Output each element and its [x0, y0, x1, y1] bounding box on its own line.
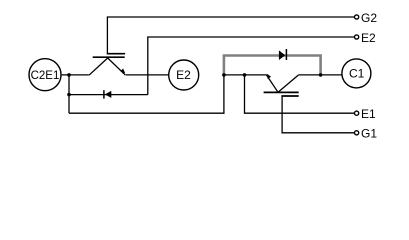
wire E2 sense net: from diode wire up and across to E2 terminal	[148, 37, 354, 95]
wire bottom rail from C2E1 up to Q1 emitter node	[69, 75, 224, 113]
igbt Q1 channel bar	[264, 91, 299, 93]
diode D1 cathode bar	[285, 49, 287, 60]
diode D1 (FWD of Q1) triangle (points right)	[279, 50, 285, 60]
diode D2 (FWD of Q2) cathode bar	[103, 90, 105, 98]
svg-text:E2: E2	[361, 31, 376, 45]
wire diode D2 branch	[69, 94, 148, 96]
svg-text:G1: G1	[361, 127, 377, 141]
wire C2E1 branch down to diode and bottom rail	[68, 75, 70, 113]
terminal E2	[355, 35, 359, 39]
igbt Q1 emitter arrowhead	[267, 74, 272, 79]
junction dot at C2E1 branch	[67, 73, 71, 77]
igbt Q2 channel bar	[93, 56, 125, 58]
node circle C1	[342, 59, 371, 88]
igbt Q2 emitter diagonal with arrow	[108, 58, 126, 75]
junction dot at D1 cathode / collector	[319, 73, 323, 77]
igbt Q2 collector diagonal	[89, 58, 108, 75]
node circle C2E1	[29, 59, 61, 91]
igbt Q2 gate bar	[107, 53, 125, 55]
wire Q2 emitter to E2 node circle	[126, 74, 170, 76]
node circle E2	[169, 60, 199, 90]
junction dot at E1 sense branch	[243, 73, 247, 77]
wire G1: gate lead of Q1 down and across to G1 terminal	[282, 96, 354, 133]
wire C2E1 to Q2 collector	[61, 74, 89, 76]
igbt Q1 collector diagonal	[278, 75, 299, 92]
wire Q1 collector to C1 node circle	[299, 74, 343, 76]
diode D2 triangle (points left)	[105, 91, 112, 98]
junction dot at diode D2 branch	[67, 93, 71, 97]
terminal E1	[355, 111, 359, 115]
svg-text:G2: G2	[361, 11, 377, 25]
wire Q1 emitter segment	[224, 74, 267, 76]
igbt Q2 emitter arrowhead	[120, 69, 125, 74]
svg-text:E1: E1	[361, 107, 376, 121]
terminal G2	[355, 15, 359, 19]
wire G2 net: gate lead of Q2 up and across to G2 terminal	[107, 17, 354, 53]
svg-text:E2: E2	[176, 68, 191, 82]
igbt Q1 gate bar	[281, 95, 298, 97]
igbt Q1 emitter diagonal with arrow	[266, 75, 278, 92]
svg-text:C1: C1	[349, 67, 365, 81]
terminal G1	[355, 131, 359, 135]
junction dot at Q1 emitter / bottom rail	[222, 73, 226, 77]
svg-text:C2E1: C2E1	[31, 70, 60, 82]
freewheel-diode loop net (gray) of Q1	[224, 56, 321, 75]
wire E1 sense: down from emitter node and across to E1 terminal	[245, 75, 355, 113]
